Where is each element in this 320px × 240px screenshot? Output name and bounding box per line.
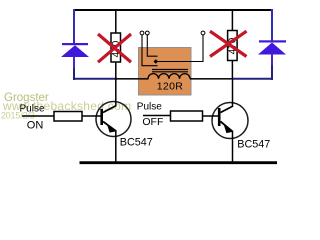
svg-text:Pulse: Pulse: [137, 102, 162, 113]
svg-text:Pulse: Pulse: [20, 103, 45, 114]
svg-text:OFF: OFF: [142, 116, 163, 128]
svg-text:BC547: BC547: [237, 138, 270, 150]
svg-text:ON: ON: [27, 119, 44, 131]
svg-text:120R: 120R: [157, 80, 184, 92]
svg-text:BC547: BC547: [120, 136, 153, 148]
